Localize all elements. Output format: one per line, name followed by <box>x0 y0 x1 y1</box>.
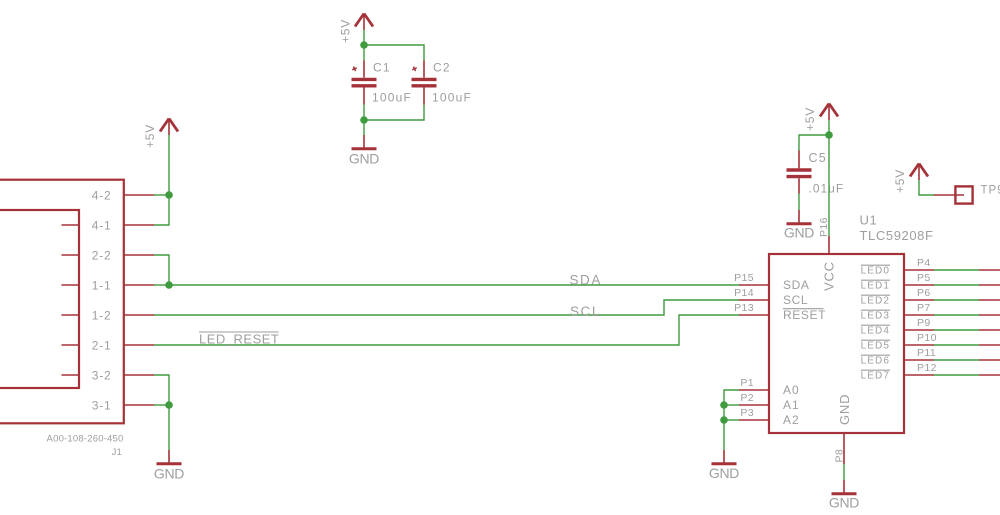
ground symbol below A2 <box>709 450 739 481</box>
wire J1 3-1 stub <box>154 404 169 406</box>
svg-text:SCL: SCL <box>570 304 601 319</box>
svg-text:4-2: 4-2 <box>92 188 112 202</box>
svg-text:GND: GND <box>154 466 184 482</box>
wire LED6 net <box>934 359 1000 361</box>
svg-text:4-1: 4-1 <box>92 218 112 232</box>
wire to C5 <box>799 135 829 151</box>
U1 value TLC59208F <box>860 228 934 243</box>
svg-text:P4: P4 <box>917 257 931 269</box>
wire +5V to TP9 <box>919 180 934 195</box>
wire C5 to ground <box>798 194 800 211</box>
junction at J1 pin 4-2 <box>165 191 173 199</box>
wire +5V to VCC node <box>828 120 830 135</box>
wire LED0 net <box>934 269 1000 271</box>
wire branch to C2 top <box>364 45 424 61</box>
svg-text:SDA: SDA <box>783 278 809 292</box>
J1 pin 1-1 <box>92 278 154 292</box>
svg-text:P3: P3 <box>740 407 754 419</box>
svg-text:3-2: 3-2 <box>92 368 112 382</box>
wire LED2 net <box>934 299 1000 301</box>
svg-text:A1: A1 <box>783 398 800 412</box>
wire LED1 net <box>934 284 1000 286</box>
svg-text:3-1: 3-1 <box>92 398 112 412</box>
wire J1 1-1 stub <box>154 284 169 286</box>
wire 3-1 to ground <box>168 405 170 450</box>
wire C2 bottom to C1 bottom <box>364 105 424 121</box>
U1 pin P11 LED6 <box>861 347 937 366</box>
svg-text:GND: GND <box>349 151 379 167</box>
wire 3-2 to 3-1 <box>154 375 169 405</box>
ground symbol below U1 <box>829 480 859 511</box>
svg-text:GND: GND <box>784 225 814 241</box>
U1 pin P3 A2 <box>739 407 800 427</box>
svg-text:TP9: TP9 <box>981 185 1000 197</box>
U1 VCC pin name <box>822 261 837 291</box>
J1 value A00-108-260-450 <box>47 434 124 445</box>
svg-text:.01uF: .01uF <box>809 182 845 196</box>
svg-text:GND: GND <box>709 465 739 481</box>
svg-text:P10: P10 <box>917 332 937 344</box>
J1 pin 1-2 <box>92 308 154 322</box>
wire LED7 net <box>934 374 1000 376</box>
net label SCL <box>570 304 601 319</box>
svg-text:J1: J1 <box>112 447 122 458</box>
wire C1 bottom stub <box>363 105 365 121</box>
svg-text:GND: GND <box>829 495 859 511</box>
svg-text:RESET: RESET <box>783 308 826 322</box>
J1 pin 2-1 <box>92 338 154 352</box>
svg-text:P15: P15 <box>734 272 754 284</box>
svg-text:100uF: 100uF <box>372 91 412 105</box>
wire +5V to C1 <box>363 30 365 45</box>
ground symbol below J1 <box>154 450 184 482</box>
svg-text:P13: P13 <box>734 302 754 314</box>
svg-text:C1: C1 <box>373 61 391 75</box>
J1 pin 4-2 <box>92 188 154 202</box>
U1 pin P6 LED2 <box>861 287 934 306</box>
svg-text:1-2: 1-2 <box>92 308 112 322</box>
label C1 <box>373 61 391 75</box>
J1 pin 2-2 <box>92 248 154 262</box>
svg-text:P5: P5 <box>917 272 931 284</box>
svg-text:+5V: +5V <box>143 124 157 148</box>
+5V supply symbol above C1 <box>339 14 374 44</box>
svg-text:+5V: +5V <box>893 169 907 193</box>
net SDA wire <box>169 284 739 286</box>
svg-text:P8: P8 <box>834 449 846 463</box>
wire VCC node to U1 VCC pin <box>828 135 830 236</box>
svg-text:P16: P16 <box>818 217 830 237</box>
U1 pin P4 LED0 <box>861 257 934 276</box>
J1 pin 4-1 <box>92 218 154 232</box>
+5V supply symbol at TP9 <box>893 164 928 194</box>
U1 pin P16 (VCC) <box>818 217 830 254</box>
junction below C1 <box>360 116 368 124</box>
capacitor C1 <box>351 61 376 105</box>
svg-text:+5V: +5V <box>339 19 353 43</box>
net LED_RESET wire <box>154 315 739 345</box>
svg-text:P7: P7 <box>917 302 931 314</box>
svg-text:P12: P12 <box>917 362 937 374</box>
svg-text:P2: P2 <box>740 392 754 404</box>
svg-text:LED3: LED3 <box>861 310 890 321</box>
ground symbol below C5 <box>784 210 814 241</box>
svg-text:P6: P6 <box>917 287 931 299</box>
U1 pin P1 A0 <box>739 377 800 397</box>
ground symbol below C1 <box>349 135 379 167</box>
value 100uF (C1) <box>372 91 412 105</box>
J1 pin 3-2 <box>92 368 154 382</box>
svg-text:LED2: LED2 <box>861 295 890 306</box>
net label SDA <box>569 272 602 287</box>
svg-text:SDA: SDA <box>569 272 602 287</box>
U1 pin P12 LED7 <box>861 362 937 381</box>
test point TP9 <box>934 185 1000 204</box>
svg-text:LED0: LED0 <box>861 265 890 276</box>
svg-text:100uF: 100uF <box>432 91 472 105</box>
svg-text:GND: GND <box>837 394 852 425</box>
U1 pin P5 LED1 <box>861 272 934 291</box>
junction at J1 pin 1-1 <box>165 281 173 289</box>
IC U1 outline <box>769 254 904 433</box>
svg-text:+5V: +5V <box>803 107 817 131</box>
wire LED5 net <box>934 344 1000 346</box>
J1 pin 3-1 <box>92 398 154 412</box>
svg-text:A00-108-260-450: A00-108-260-450 <box>47 434 124 445</box>
svg-text:VCC: VCC <box>822 261 837 291</box>
svg-text:LED1: LED1 <box>861 280 890 291</box>
svg-text:LED5: LED5 <box>861 340 890 351</box>
svg-text:C5: C5 <box>809 151 827 165</box>
svg-text:2-1: 2-1 <box>92 338 112 352</box>
wire A0/A1/A2 to ground <box>724 390 739 450</box>
wire 4-2 to 4-1 <box>154 195 169 225</box>
junction at J1 pin 3-1 <box>165 401 173 409</box>
svg-text:A2: A2 <box>783 413 800 427</box>
svg-text:P9: P9 <box>917 317 931 329</box>
U1 GND pin name <box>837 394 852 425</box>
label C2 <box>433 61 451 75</box>
net SCL wire <box>154 300 739 315</box>
J1 name J1 <box>112 447 122 458</box>
wire J1 4-2 stub <box>154 194 169 196</box>
wire LED4 net <box>934 329 1000 331</box>
junction above C1 <box>360 41 368 49</box>
value .01uF <box>809 182 845 196</box>
value 100uF (C2) <box>432 91 472 105</box>
svg-text:LED7: LED7 <box>861 370 890 381</box>
svg-text:P1: P1 <box>740 377 754 389</box>
U1 pin P13 RESET <box>734 302 826 322</box>
svg-text:LED6: LED6 <box>861 355 890 366</box>
label C5 <box>809 151 827 165</box>
svg-text:A0: A0 <box>783 383 800 397</box>
junction at A1 <box>720 401 728 409</box>
svg-text:U1: U1 <box>860 213 878 228</box>
U1 pin P10 LED5 <box>861 332 937 351</box>
U1 pin P7 LED3 <box>861 302 934 321</box>
svg-text:1-1: 1-1 <box>92 278 112 292</box>
wire P8 to ground <box>843 464 845 480</box>
svg-text:LED4: LED4 <box>861 325 890 336</box>
wire 2-2 to 1-1 <box>154 255 169 285</box>
connector J1 outline <box>0 180 124 424</box>
svg-text:2-2: 2-2 <box>92 248 112 262</box>
U1 pin P2 A1 <box>739 392 800 412</box>
wire C1 top stub <box>363 45 365 61</box>
svg-text:C2: C2 <box>433 61 451 75</box>
wire +5V down to J1 pin 4-2 <box>168 135 170 195</box>
svg-text:TLC59208F: TLC59208F <box>860 228 934 243</box>
+5V supply symbol above C5 <box>803 104 838 132</box>
U1 name U1 <box>860 213 878 228</box>
U1 pin P15 SDA <box>734 272 809 292</box>
svg-text:SCL: SCL <box>783 293 808 307</box>
U1 pin P9 LED4 <box>861 317 934 336</box>
net label LED_RESET <box>199 332 279 347</box>
capacitor C2 <box>411 61 436 105</box>
U1 pin P14 SCL <box>734 287 808 307</box>
wire LED3 net <box>934 314 1000 316</box>
+5V supply symbol at J1 <box>143 119 178 149</box>
wire to ground below C1 <box>363 120 365 135</box>
U1 pin P8 (GND) <box>834 433 846 464</box>
capacitor C5 <box>787 151 812 194</box>
svg-text:P11: P11 <box>917 347 936 359</box>
junction at VCC node <box>825 131 833 139</box>
svg-text:P14: P14 <box>734 287 754 299</box>
svg-text:LED_RESET: LED_RESET <box>199 332 279 347</box>
junction at A2 <box>720 416 728 424</box>
